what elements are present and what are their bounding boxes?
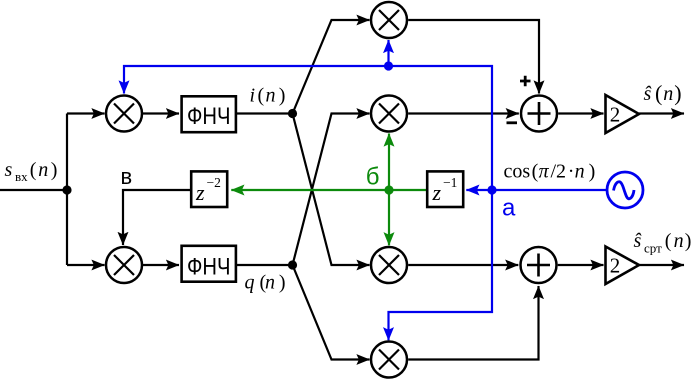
svg-text:π: π: [539, 161, 550, 183]
svg-text:cos: cos: [504, 161, 531, 183]
svg-text:в: в: [121, 164, 133, 189]
svg-text:q: q: [245, 272, 255, 294]
svg-text:(: (: [665, 230, 672, 252]
svg-text:(: (: [655, 81, 662, 106]
svg-text:i: i: [250, 85, 256, 107]
svg-text:n: n: [266, 85, 276, 107]
svg-text:n: n: [575, 161, 585, 183]
svg-text:ФНЧ: ФНЧ: [187, 254, 231, 281]
svg-text:): ): [589, 161, 596, 183]
svg-text:z: z: [432, 180, 442, 205]
svg-text:): ): [279, 85, 286, 107]
svg-text:): ): [51, 159, 58, 181]
svg-text:(: (: [258, 85, 265, 107]
svg-text:n: n: [38, 159, 48, 181]
svg-text:n: n: [674, 230, 684, 252]
svg-text:−1: −1: [443, 175, 457, 190]
svg-text:б: б: [366, 164, 380, 191]
svg-text:): ): [674, 81, 681, 106]
svg-text:n: n: [265, 272, 275, 294]
svg-text:·: ·: [568, 161, 575, 183]
svg-text:(: (: [30, 159, 37, 181]
svg-text:срт: срт: [644, 241, 662, 256]
svg-text:): ): [279, 272, 286, 294]
svg-text:(: (: [532, 161, 539, 183]
svg-text:2: 2: [610, 102, 621, 126]
svg-text:n: n: [663, 83, 673, 105]
svg-text:а: а: [502, 194, 516, 221]
svg-text:ФНЧ: ФНЧ: [187, 103, 231, 130]
svg-text:вх: вх: [15, 169, 28, 184]
svg-text:s: s: [5, 159, 13, 181]
svg-text:2: 2: [610, 254, 621, 278]
svg-text:): ): [685, 230, 692, 252]
svg-text:ŝ: ŝ: [644, 83, 652, 105]
svg-text:/2: /2: [551, 161, 567, 183]
svg-text:ŝ: ŝ: [634, 230, 642, 252]
svg-text:−2: −2: [207, 175, 221, 190]
svg-text:z: z: [195, 180, 205, 205]
